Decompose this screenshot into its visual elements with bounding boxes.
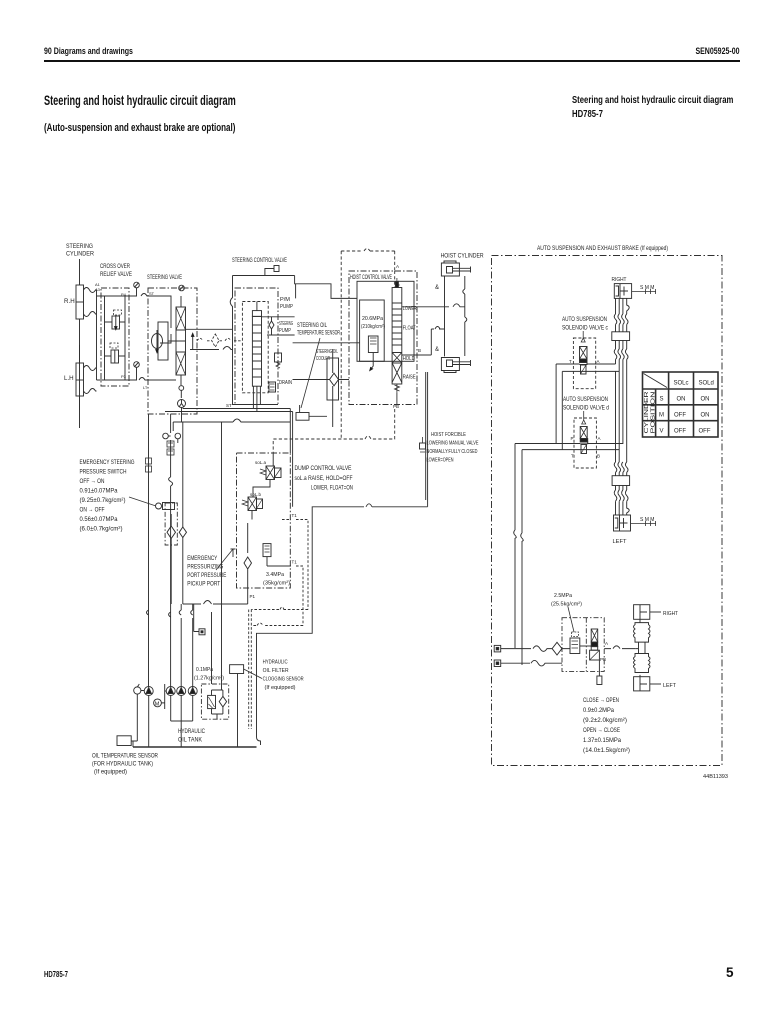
svg-text:S: S — [660, 397, 664, 403]
svg-text:M: M — [659, 413, 664, 419]
svg-text:PUMP: PUMP — [280, 304, 293, 310]
svg-text:(14.0±1.5kg/cm²): (14.0±1.5kg/cm²) — [583, 747, 630, 754]
svg-text:0.91±0.07MPa: 0.91±0.07MPa — [80, 488, 119, 495]
wire LT line — [149, 379, 176, 381]
brake port lower — [494, 660, 501, 667]
subtitle — [44, 122, 235, 134]
svg-text:(1.27kg/cm²): (1.27kg/cm²) — [194, 676, 224, 682]
node P3 pickup — [231, 549, 236, 557]
svg-text:PORT PRESSURE: PORT PRESSURE — [187, 572, 226, 579]
check valve steering feed — [179, 527, 186, 538]
svg-text:S M M: S M M — [640, 517, 654, 523]
wire pilot PB dashed — [273, 409, 395, 453]
svg-text:V: V — [660, 429, 664, 435]
wire quad lower continue — [616, 371, 620, 462]
svg-text:soL.a RAISE, HOLD=OFF: soL.a RAISE, HOLD=OFF — [295, 475, 353, 482]
svg-text:P3: P3 — [121, 374, 127, 379]
svg-text:1.37±0.15MPa: 1.37±0.15MPa — [583, 737, 622, 744]
solenoid table — [643, 372, 719, 437]
svg-text:STEERING OIL: STEERING OIL — [297, 323, 327, 329]
svg-text:OFF: OFF — [674, 429, 686, 435]
svg-text:(If equipped): (If equipped) — [265, 685, 296, 691]
svg-text:HYDRAULIC: HYDRAULIC — [263, 660, 288, 666]
svg-text:PB: PB — [600, 657, 606, 662]
svg-text:P1: P1 — [250, 594, 256, 599]
suspension cylinder right front — [614, 284, 631, 299]
relief valve upper — [112, 316, 120, 329]
solenoid valve c — [581, 331, 585, 342]
wire hoist T return path — [257, 372, 428, 745]
svg-text:HOIST FORCIBLE: HOIST FORCIBLE — [431, 432, 466, 438]
hydraulic oil filter clogging sensor — [230, 665, 244, 674]
svg-text:T1: T1 — [292, 560, 298, 565]
svg-text:S M M: S M M — [640, 285, 654, 291]
hose waves quad lower2 — [614, 490, 628, 501]
svg-text:ON: ON — [677, 397, 686, 403]
svg-text:LOWER, FLOAT=ON: LOWER, FLOAT=ON — [311, 485, 353, 492]
pilot remote control dashed box — [341, 249, 395, 440]
hose marks hoist — [463, 289, 467, 322]
svg-text:0.9±0.2MPa: 0.9±0.2MPa — [583, 707, 615, 714]
svg-text:A: A — [605, 641, 608, 646]
hoist cylinder bottom — [441, 358, 470, 373]
svg-text:CLOSE → OPEN: CLOSE → OPEN — [583, 697, 619, 704]
svg-text:ON → OFF: ON → OFF — [80, 507, 105, 514]
svg-text:(210kg/cm²): (210kg/cm²) — [361, 324, 385, 330]
gauge circle P — [134, 687, 141, 694]
svg-text:2.5MPa: 2.5MPa — [554, 593, 573, 599]
relief valve in control valve — [275, 353, 282, 362]
hoist relief valve — [368, 336, 378, 353]
gauge test ports — [163, 433, 169, 439]
spool bottom spring — [395, 384, 400, 393]
svg-text:FLOAT: FLOAT — [403, 326, 416, 332]
svg-text:EMERGENCY: EMERGENCY — [187, 555, 217, 562]
svg-text:B: B — [597, 454, 600, 459]
dump control valve enclosure — [237, 453, 291, 588]
wire spool top gauge — [180, 296, 182, 307]
pump 4 — [188, 687, 197, 696]
wire tank trunk lines — [165, 409, 293, 412]
gerotor metering unit — [158, 322, 168, 360]
hoist control valve enclosure — [349, 271, 417, 405]
steering cylinder R.H — [76, 285, 84, 319]
svg-text:&: & — [435, 285, 439, 291]
steering valve enclosure — [148, 288, 197, 414]
svg-text:R.H: R.H — [64, 298, 75, 305]
bellows chamber upper — [634, 623, 651, 643]
bellows chamber lower — [634, 654, 651, 673]
svg-text:OFF: OFF — [674, 413, 686, 419]
svg-text:ON: ON — [701, 397, 710, 403]
wire brake line to cylinders — [604, 646, 635, 649]
svg-text:NORMALLY:FULLY CLOSED: NORMALLY:FULLY CLOSED — [427, 449, 478, 455]
svg-text:L.H: L.H — [64, 375, 74, 382]
motor M — [154, 699, 162, 707]
svg-text:(9.25±0.7kg/cm²): (9.25±0.7kg/cm²) — [80, 497, 126, 504]
svg-text:RIGHT: RIGHT — [663, 611, 678, 617]
svg-text:OIL TANK: OIL TANK — [178, 737, 203, 744]
hoist valve body — [357, 281, 414, 361]
solenoid valve d dashed box — [574, 418, 596, 468]
svg-text:HYDRAULIC: HYDRAULIC — [178, 728, 205, 735]
orbitrol unit — [252, 311, 261, 317]
solenoid valve c dashed box — [573, 338, 595, 389]
exhaust brake cylinder left — [634, 677, 650, 691]
hose R.H rod — [84, 312, 97, 317]
svg-text:LEFT: LEFT — [613, 539, 627, 545]
exhaust brake valve enclosure — [562, 618, 604, 672]
wire bottom main line P3 — [97, 378, 150, 381]
svg-text:AUTO SUSPENSION: AUTO SUSPENSION — [563, 397, 608, 403]
svg-text:0.56±0.07MPa: 0.56±0.07MPa — [80, 516, 119, 523]
hose L.H rod — [84, 389, 97, 394]
svg-text:AUTO SUSPENSION AND EXHAUST BR: AUTO SUSPENSION AND EXHAUST BRAKE (If eq… — [537, 245, 668, 252]
svg-text:CYLINDER: CYLINDER — [644, 391, 650, 434]
svg-text:LOWERING MANUAL VALVE: LOWERING MANUAL VALVE — [427, 441, 479, 447]
svg-text:P4: P4 — [121, 292, 127, 297]
svg-text:STEERING VALVE: STEERING VALVE — [147, 274, 182, 281]
svg-text:CLOGGING SENSOR: CLOGGING SENSOR — [263, 677, 304, 683]
steering control valve enclosure — [235, 288, 278, 405]
dump relief 3.4MPa — [263, 544, 271, 557]
hoist cylinder top — [441, 261, 470, 276]
svg-text:(6.0±0.7kg/cm²): (6.0±0.7kg/cm²) — [80, 526, 123, 533]
hose waves quad mid — [614, 349, 628, 359]
suspension cylinder left rear — [614, 515, 631, 531]
breather filter — [208, 695, 216, 708]
LS check valve — [197, 334, 242, 347]
pilot dashed box — [242, 302, 268, 393]
svg-text:B: B — [418, 348, 421, 353]
svg-text:RIGHT: RIGHT — [612, 277, 627, 283]
svg-text:OIL FILTER: OIL FILTER — [263, 668, 289, 674]
auto suspension enclosure — [492, 256, 723, 766]
wire trunk verticals — [290, 409, 292, 507]
breather check — [219, 696, 226, 707]
hoist spool — [392, 288, 402, 385]
wire pump suctions — [149, 696, 193, 748]
wire P supply — [262, 317, 295, 335]
orifice marks left — [146, 458, 152, 464]
svg-text:soL.a: soL.a — [255, 460, 267, 465]
svg-text:A: A — [396, 264, 399, 269]
svg-text:HOIST CYLINDER: HOIST CYLINDER — [441, 253, 484, 260]
wire top main line P4 — [97, 294, 150, 297]
header left — [44, 46, 133, 56]
svg-text:A3: A3 — [95, 287, 101, 292]
svg-text:P: P — [571, 436, 574, 441]
svg-text:(9.2±2.0kg/cm²): (9.2±2.0kg/cm²) — [583, 717, 627, 724]
svg-text:OIL TEMPERATURE SENSOR: OIL TEMPERATURE SENSOR — [92, 753, 158, 760]
header rule — [44, 60, 740, 62]
svg-text:(If equipped): (If equipped) — [94, 769, 127, 776]
svg-text:(FOR HYDRAULIC TANK): (FOR HYDRAULIC TANK) — [92, 761, 153, 768]
svg-text:RELIEF VALVE: RELIEF VALVE — [100, 271, 132, 278]
brake solenoid valve — [591, 629, 598, 642]
svg-text:SOLENOID VALVE d: SOLENOID VALVE d — [563, 406, 609, 412]
svg-text:M: M — [155, 702, 160, 708]
wire supply to hoist — [295, 276, 357, 299]
pump 1 — [144, 687, 153, 696]
wire brake supply lines — [501, 646, 570, 666]
drain valve — [269, 382, 276, 392]
wire spool bottom drain — [180, 375, 182, 385]
wire solenoid c lines — [556, 364, 619, 450]
steering valve spool — [176, 307, 186, 375]
hose marks trunk bottom — [147, 610, 193, 617]
manual valve symbol — [420, 443, 426, 449]
exhaust brake cylinder right — [634, 605, 650, 620]
gauge port lower — [134, 362, 140, 368]
quad manifold upper — [612, 332, 630, 341]
wire hoist T line with filter — [293, 343, 360, 380]
wire drain line to dump — [173, 408, 290, 432]
svg-text:STEERING OIL: STEERING OIL — [316, 349, 338, 355]
emergency pressurizing port — [199, 629, 205, 635]
pump 3 — [177, 687, 186, 696]
svg-text:DRAIN: DRAIN — [279, 380, 292, 386]
right title — [572, 94, 733, 121]
svg-text:OPEN → CLOSE: OPEN → CLOSE — [583, 727, 620, 734]
brake pressure regulator — [570, 638, 580, 654]
oil temperature sensor tank — [117, 736, 131, 746]
svg-text:3.4MPa: 3.4MPa — [266, 572, 285, 578]
quad manifold lower — [612, 476, 630, 486]
svg-text:(25.5kg/cm²): (25.5kg/cm²) — [551, 602, 582, 608]
svg-text:T1: T1 — [292, 513, 298, 518]
svg-text:A: A — [597, 359, 600, 364]
switch pointer — [129, 497, 156, 506]
filter check diamond — [330, 373, 339, 386]
steering control valve outer body — [230, 276, 294, 405]
svg-text:OFF: OFF — [699, 429, 711, 435]
pickup pointer — [216, 549, 233, 570]
wire steering cylinder stem — [79, 259, 81, 410]
steering oil cooler — [327, 358, 339, 400]
wire suspension quad lines — [616, 298, 630, 314]
steering oil temperature sensor — [296, 413, 309, 421]
svg-text:20.6MPa: 20.6MPa — [362, 316, 384, 322]
svg-text:LT: LT — [143, 385, 148, 390]
cross over relief valve enclosure — [101, 288, 129, 386]
svg-text:PRESSURE SWITCH: PRESSURE SWITCH — [80, 469, 127, 476]
wire left trunk verticals — [149, 414, 193, 687]
svg-text:OFF → ON: OFF → ON — [80, 478, 105, 485]
hose waves quad upper — [614, 314, 628, 324]
emergency check enclosure — [165, 503, 177, 545]
svg-text:T: T — [569, 359, 572, 364]
wire hoist cylinder lines — [417, 276, 465, 356]
svg-text:PICKUP PORT: PICKUP PORT — [187, 581, 220, 588]
svg-text:HOLD: HOLD — [403, 356, 415, 362]
svg-text:PUMP: PUMP — [279, 328, 291, 334]
svg-text:A1: A1 — [95, 282, 101, 287]
hose waves on down pair — [514, 530, 524, 541]
wire LS junction — [186, 329, 233, 349]
hose S-bend — [169, 477, 173, 486]
wire P1 supply line — [183, 601, 248, 632]
svg-text:DUMP CONTROL VALVE: DUMP CONTROL VALVE — [295, 465, 352, 472]
header right — [696, 46, 740, 56]
brake check valve — [550, 642, 562, 655]
svg-text:ST: ST — [149, 291, 155, 296]
drain gauge — [178, 400, 186, 408]
pump 2 — [166, 687, 175, 696]
wire hoist A line — [394, 271, 396, 288]
svg-text:&: & — [435, 347, 439, 353]
svg-text:SOLENOID VALVE c: SOLENOID VALVE c — [562, 326, 608, 332]
gauge port upper — [134, 282, 140, 288]
hose L.H head — [84, 366, 97, 371]
title — [44, 93, 236, 108]
solenoid valve d — [582, 411, 586, 424]
svg-text:SOLc: SOLc — [674, 381, 689, 387]
svg-text:ST: ST — [226, 403, 232, 408]
svg-text:LOWER=OPEN: LOWER=OPEN — [427, 458, 454, 464]
relief valve lower — [111, 350, 119, 363]
hose R.H head — [84, 288, 97, 293]
emergency pressure switch symbol — [156, 503, 162, 509]
svg-text:SOLd: SOLd — [699, 381, 714, 387]
svg-text:EMERGENCY STEERING: EMERGENCY STEERING — [80, 459, 135, 466]
footer left — [44, 970, 68, 979]
svg-text:STEERING: STEERING — [66, 243, 93, 250]
wire steering valve internal supply — [149, 296, 176, 343]
pressure switch stacks — [167, 441, 174, 447]
check valve dump P1 — [244, 557, 252, 604]
svg-text:TEMPERATURE SENSOR: TEMPERATURE SENSOR — [297, 331, 340, 337]
spool top spring — [395, 278, 400, 288]
brake drain restrictor — [598, 660, 600, 676]
svg-text:44B11393: 44B11393 — [703, 774, 728, 780]
svg-text:(35kg/cm²): (35kg/cm²) — [263, 581, 290, 587]
svg-text:HOIST CONTROL VALVE: HOIST CONTROL VALVE — [350, 274, 392, 281]
wire T1 dashed drains — [249, 520, 308, 730]
footer page number — [726, 965, 734, 980]
wire solenoid d lines — [515, 444, 623, 666]
check valve emergency — [167, 514, 176, 604]
pointer 2.5MPa — [568, 607, 574, 632]
hose waves quad lower — [614, 462, 628, 472]
tank line — [133, 746, 257, 748]
port marker top — [274, 266, 279, 272]
brake port upper — [494, 645, 501, 652]
check valve small — [269, 321, 274, 335]
svg-text:AUTO SUSPENSION: AUTO SUSPENSION — [562, 317, 607, 323]
wire relief rails — [105, 296, 126, 380]
svg-text:COOLER: COOLER — [316, 356, 330, 362]
svg-text:A: A — [598, 436, 601, 441]
steering cylinder L.H — [76, 363, 84, 396]
svg-text:ON: ON — [701, 413, 710, 419]
svg-text:CYLINDER: CYLINDER — [66, 251, 94, 258]
svg-text:RAISE: RAISE — [403, 375, 416, 381]
svg-text:STEERING: STEERING — [279, 321, 293, 327]
wire cylinder junction vertical — [96, 290, 98, 380]
svg-text:soL.b: soL.b — [250, 492, 262, 497]
svg-text:STEERING CONTROL VALVE: STEERING CONTROL VALVE — [232, 257, 287, 264]
sensor pointer — [301, 338, 320, 408]
wire hoist B out — [402, 307, 432, 355]
wire breather standpipe — [221, 422, 223, 690]
svg-text:T: T — [571, 454, 574, 459]
breather filter enclosure — [201, 684, 228, 719]
svg-text:CROSS OVER: CROSS OVER — [100, 263, 130, 270]
svg-text:P/M: P/M — [280, 297, 290, 303]
svg-text:LEFT: LEFT — [663, 683, 676, 689]
svg-text:POSITION: POSITION — [651, 391, 657, 434]
